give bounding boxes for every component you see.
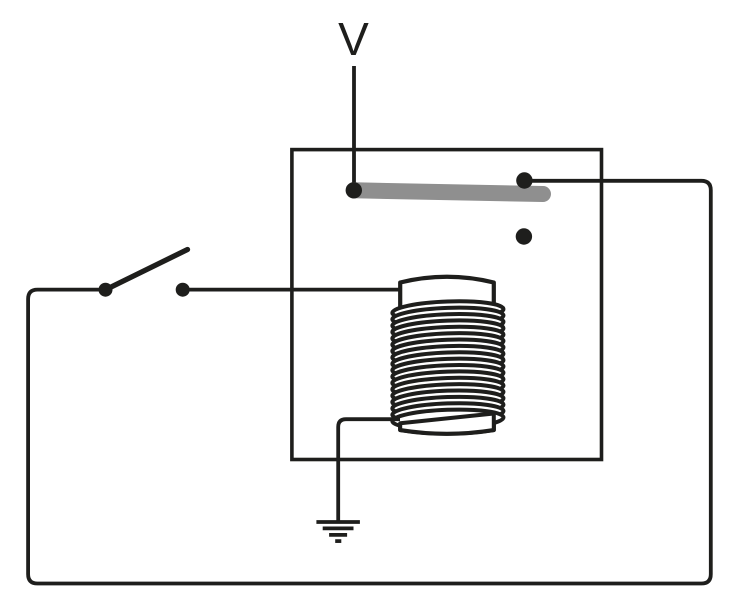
wire: outer loop (switch - battery-less loop to armature contact): [28, 181, 711, 584]
node: armature moving contact dot: [516, 172, 532, 188]
ground symbol: [316, 522, 360, 541]
node: armature pivot dot: [346, 182, 362, 198]
switch S1: lever: [106, 250, 188, 290]
relay armature (gray bar): [354, 190, 543, 194]
switch S1: right pole dot: [176, 283, 190, 297]
wire: switch to coil: [183, 288, 400, 292]
wire: V terminal down to armature pivot: [352, 66, 356, 188]
coil L1: windings (white-filled turns stacked top to bottom): [392, 300, 504, 431]
relay enclosure box: [292, 150, 602, 460]
coil L1: bottom flange with lead-out turn: [400, 414, 494, 434]
wire: coil bottom to ground: [338, 419, 400, 521]
coil L1: electromagnet bobbin: [400, 277, 494, 434]
node: stationary contact dot: [516, 228, 532, 244]
switch S1: left pole dot: [99, 283, 113, 297]
svg-text:V: V: [338, 13, 369, 65]
